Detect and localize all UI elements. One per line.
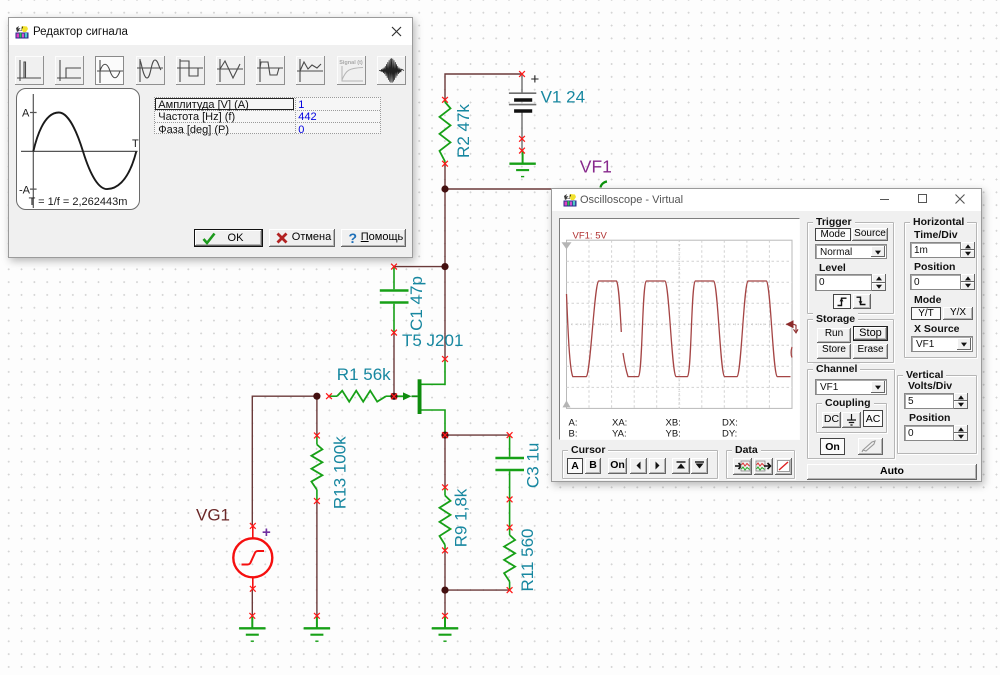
resistor R11 560 <box>504 499 515 590</box>
wire: node D right to C3 top <box>445 434 510 436</box>
node A junction <box>441 185 448 192</box>
svg-text:V1 24: V1 24 <box>541 88 585 107</box>
capacitor C1 47p <box>380 267 409 333</box>
svg-text:C3 1u: C3 1u <box>524 443 543 488</box>
ground under R13 <box>304 616 330 641</box>
resistor R2 47k <box>440 100 451 164</box>
Cursor group <box>562 450 718 479</box>
svg-text:YA:: YA: <box>612 429 627 440</box>
svg-text:T: T <box>132 138 139 150</box>
svg-text:DY:: DY: <box>722 429 737 440</box>
svg-text:DX:: DX: <box>722 418 738 429</box>
wire: R11 bottom to node E <box>445 589 510 591</box>
node C junction <box>390 393 397 400</box>
wire: node F down to R13 top <box>316 396 318 435</box>
svg-text:R9 1,8k: R9 1,8k <box>452 488 471 547</box>
svg-text:C1 47p: C1 47p <box>407 276 426 331</box>
Trigger group <box>807 222 894 314</box>
battery V1 24 <box>509 74 536 151</box>
svg-text:VG1: VG1 <box>196 506 230 525</box>
Vertical group <box>897 375 977 454</box>
wire: node E to ground <box>444 590 446 616</box>
generator VG1 <box>233 526 272 589</box>
wire: C1 bottom pin to gate node C <box>393 333 395 397</box>
node B junction <box>441 263 448 270</box>
wire: R13 bottom to ground <box>316 501 318 616</box>
svg-text:T5 J201: T5 J201 <box>402 331 463 350</box>
Auto button <box>807 464 977 480</box>
preview box <box>16 88 140 210</box>
wire: battery top rail <box>445 74 522 100</box>
svg-text:B:: B: <box>569 429 578 440</box>
svg-text:A:: A: <box>569 418 578 429</box>
Horizontal group <box>904 222 977 358</box>
svg-text:XA:: XA: <box>612 418 627 429</box>
svg-text:R1 56k: R1 56k <box>337 365 391 384</box>
ground under VG1 <box>239 616 265 641</box>
waveform type buttons <box>15 56 44 85</box>
svg-text:YB:: YB: <box>666 429 681 440</box>
svg-text:R2 47k: R2 47k <box>454 104 473 158</box>
transistor T5 J201 <box>394 359 445 435</box>
ground under node E <box>432 616 458 641</box>
resistor R9 1,8k <box>440 487 451 550</box>
wire: node D down to R9 top <box>444 435 446 487</box>
Data group <box>726 450 795 479</box>
svg-text:+: + <box>262 524 271 541</box>
resistor R1 56k <box>329 391 394 402</box>
capacitor C3 1u <box>495 435 524 499</box>
svg-text:XB:: XB: <box>666 418 681 429</box>
svg-text:Signal (t): Signal (t) <box>339 60 363 66</box>
svg-text:+: + <box>531 71 540 88</box>
wire: node F to VG1 top <box>252 396 317 526</box>
wire: node B down to T5 drain pin <box>444 267 446 359</box>
resistor R13 100k <box>311 436 322 502</box>
node E junction <box>441 587 448 594</box>
svg-text:A: A <box>22 108 30 120</box>
wire: R9 bottom to node E <box>444 550 446 590</box>
wire: R2 bottom to node A <box>444 164 446 189</box>
wire: node A to VF1 probe <box>445 188 601 190</box>
parameter table <box>154 97 381 134</box>
wire: node B to C1 top pin <box>394 266 445 268</box>
svg-text:R13 100k: R13 100k <box>331 436 350 509</box>
svg-text:VF1: VF1 <box>580 157 612 177</box>
svg-text:R11 560: R11 560 <box>518 528 537 591</box>
Storage group <box>807 319 894 363</box>
OK button <box>194 229 263 247</box>
Help button <box>341 229 406 247</box>
screen sunken panel <box>559 218 800 440</box>
pin marks <box>249 71 525 619</box>
ground under V1 <box>509 151 535 177</box>
wire: VG1 bottom to ground <box>251 589 253 616</box>
Cancel button <box>269 229 335 247</box>
wire: node A down to node B <box>444 189 446 267</box>
node F junction <box>313 393 320 400</box>
node D junction <box>441 432 448 439</box>
Channel group <box>807 369 895 459</box>
VF1 probe arc <box>601 182 608 188</box>
